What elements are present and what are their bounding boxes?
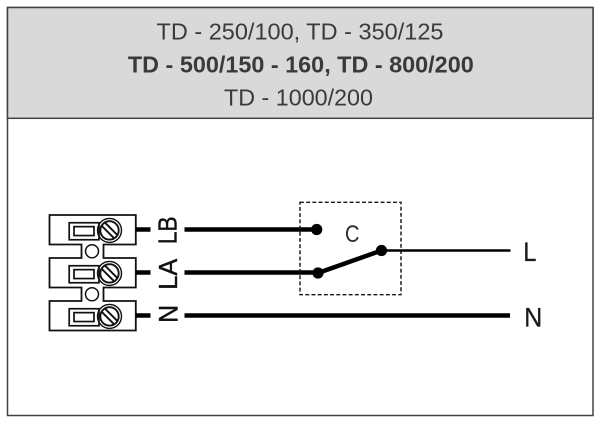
wire stub N bbox=[136, 313, 151, 318]
node LA dot bbox=[312, 267, 323, 278]
wire L bbox=[382, 249, 511, 252]
terminal 1 clamp window outer bbox=[69, 223, 99, 240]
svg-text:N: N bbox=[524, 302, 542, 332]
svg-text:TD - 1000/200: TD - 1000/200 bbox=[224, 85, 373, 111]
svg-text:LA: LA bbox=[153, 258, 183, 290]
dashed selector box bbox=[300, 202, 401, 294]
switch lever bbox=[318, 251, 382, 274]
svg-text:TD - 250/100, TD - 350/125: TD - 250/100, TD - 350/125 bbox=[157, 19, 444, 45]
header panel bbox=[8, 8, 594, 119]
wire LA bbox=[185, 270, 319, 275]
terminal block strip outline bbox=[50, 215, 136, 331]
terminal 3 clamp window inner bbox=[74, 313, 94, 322]
terminal 2 clamp window outer bbox=[69, 266, 99, 283]
strip hole 1 bbox=[86, 245, 99, 258]
wire stub LA bbox=[136, 270, 151, 275]
svg-text:N: N bbox=[153, 305, 183, 323]
terminal 2 screw bbox=[98, 261, 122, 285]
svg-text:L: L bbox=[523, 237, 536, 267]
terminal 2 clamp window inner bbox=[74, 270, 94, 279]
svg-text:C: C bbox=[345, 221, 360, 248]
terminal 1 clamp window inner bbox=[74, 227, 94, 236]
terminal 3 screw bbox=[98, 304, 122, 328]
terminal 1 screw bbox=[98, 218, 122, 242]
wire LB bbox=[185, 227, 318, 232]
switch common dot bbox=[376, 245, 387, 256]
wire N bbox=[185, 313, 511, 318]
node LB dot bbox=[311, 224, 322, 235]
svg-text:LB: LB bbox=[153, 216, 183, 244]
strip hole 2 bbox=[86, 288, 99, 301]
svg-text:TD - 500/150 - 160, TD - 800/2: TD - 500/150 - 160, TD - 800/200 bbox=[128, 52, 474, 78]
wire stub LB bbox=[136, 227, 151, 232]
terminal 3 clamp window outer bbox=[69, 309, 99, 326]
